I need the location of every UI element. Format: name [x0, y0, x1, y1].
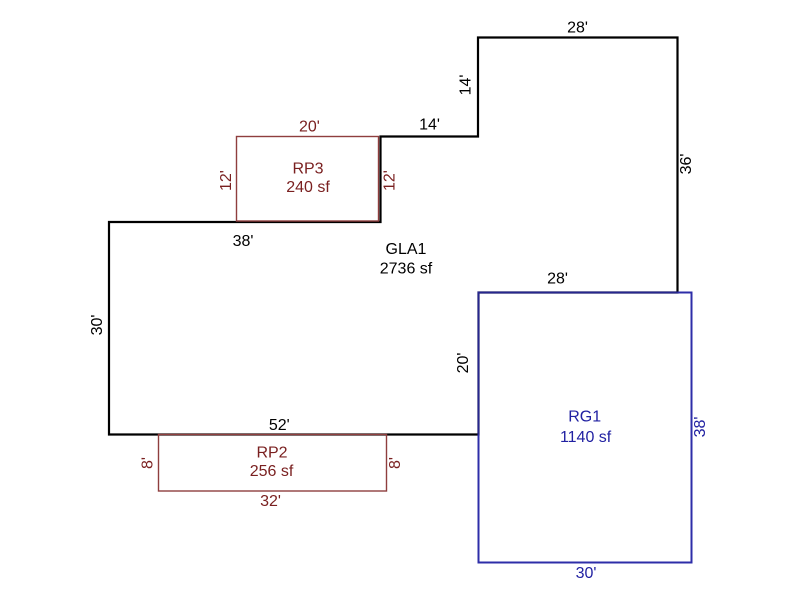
- svg-text:36': 36': [678, 154, 695, 175]
- svg-text:RP3: RP3: [292, 161, 323, 178]
- svg-text:8': 8': [387, 457, 404, 469]
- GLA1 outline: [109, 38, 678, 435]
- svg-text:GLA1: GLA1: [386, 241, 427, 258]
- svg-text:14': 14': [419, 117, 440, 134]
- svg-text:20': 20': [299, 119, 320, 136]
- wire: RG1 top edge overlapping GLA1 (navy): [479, 292, 678, 294]
- svg-text:38': 38': [692, 417, 709, 438]
- svg-text:12': 12': [382, 170, 399, 191]
- svg-text:RG1: RG1: [568, 409, 601, 426]
- svg-text:28': 28': [547, 271, 568, 288]
- svg-text:28': 28': [567, 20, 588, 37]
- svg-text:240 sf: 240 sf: [286, 179, 330, 196]
- svg-text:2736 sf: 2736 sf: [380, 261, 433, 278]
- svg-text:30': 30': [576, 565, 597, 582]
- wire: RG1 left edge overlapping GLA1 (navy): [478, 293, 480, 435]
- svg-text:14': 14': [458, 75, 475, 96]
- svg-text:52': 52': [269, 417, 290, 434]
- svg-text:8': 8': [140, 457, 157, 469]
- RP3 rectangle: [237, 137, 379, 222]
- svg-text:32': 32': [260, 493, 281, 510]
- svg-text:38': 38': [233, 233, 254, 250]
- RG1 rectangle: [479, 293, 692, 563]
- svg-text:1140 sf: 1140 sf: [560, 429, 612, 446]
- svg-text:RP2: RP2: [256, 445, 287, 462]
- svg-text:12': 12': [218, 170, 235, 191]
- svg-text:256 sf: 256 sf: [250, 463, 294, 480]
- RP2 rectangle: [159, 435, 387, 492]
- svg-text:30': 30': [89, 315, 106, 336]
- svg-text:20': 20': [455, 353, 472, 374]
